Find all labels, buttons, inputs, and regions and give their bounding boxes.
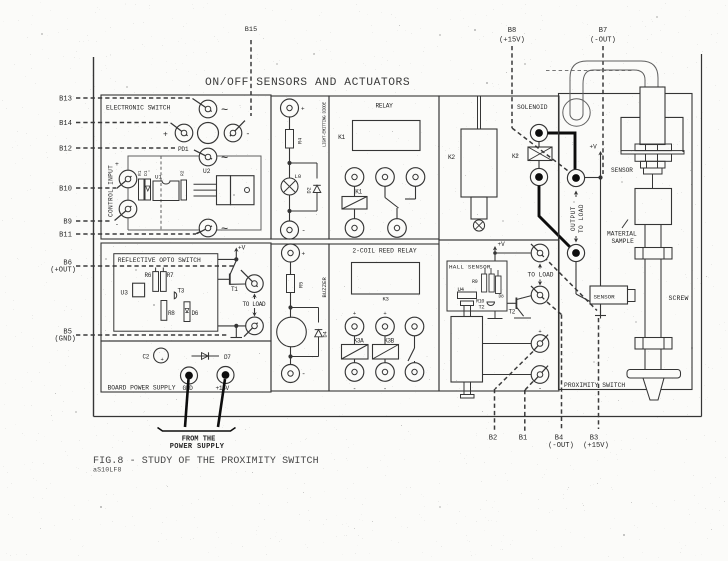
svg-text:D2: D2 (307, 187, 313, 193)
board outline right edge (701, 54, 703, 417)
svg-text:R9: R9 (472, 279, 478, 285)
wire K3A bottom (354, 359, 356, 363)
resistor R2 (181, 180, 187, 200)
magnet stem bottom (464, 382, 471, 395)
terminal reed switch top (405, 317, 424, 336)
wire B6 dashed (76, 265, 234, 267)
inner box reflective opto (114, 254, 218, 332)
wire relay coil bottom (354, 209, 356, 219)
resistor R9b (489, 274, 494, 292)
cable inner wall (583, 70, 645, 114)
wire relay coil top (354, 186, 356, 196)
wire K2 coil bottom (538, 161, 540, 169)
module box solenoid (439, 96, 559, 240)
svg-text:TO LOAD: TO LOAD (578, 204, 585, 233)
wire relay switch pole (384, 186, 386, 197)
svg-text:T2: T2 (509, 309, 516, 316)
svg-text:SENSOR: SENSOR (594, 294, 616, 301)
svg-text:R4: R4 (298, 138, 304, 144)
svg-text:D8: D8 (499, 294, 504, 300)
terminal relay NO (406, 168, 425, 187)
svg-text:+: + (161, 356, 164, 363)
svg-text:D1: D1 (143, 170, 149, 176)
wire LED 1 (289, 117, 291, 130)
svg-text:-: - (538, 385, 542, 392)
screw knob taper (643, 378, 664, 400)
inductive sensor box (590, 286, 628, 304)
svg-text:(-OUT): (-OUT) (548, 442, 574, 450)
resistor R1 (139, 179, 145, 200)
transistor T2 package (487, 302, 495, 306)
svg-text:T1: T1 (231, 286, 238, 293)
svg-text:K3: K3 (382, 296, 388, 303)
svg-text:BUZZER: BUZZER (321, 276, 328, 297)
svg-text:U2: U2 (203, 168, 211, 175)
terminal buzzer plus (282, 244, 300, 262)
ic U1 (153, 181, 179, 201)
wire +15V thick (218, 379, 225, 427)
sensor nut row 3 (641, 161, 666, 168)
screw collar 1 (635, 248, 672, 260)
wire LED 2 (289, 148, 291, 178)
svg-text:U1: U1 (155, 174, 162, 181)
wire B2 dashed (495, 352, 533, 390)
ground cross B3 (595, 315, 606, 317)
ic U3 (133, 283, 145, 297)
sensor stem (644, 168, 663, 174)
cable grommet donut (563, 99, 590, 126)
svg-text:(GND): (GND) (54, 336, 76, 344)
diode D6 (184, 302, 190, 322)
terminal hall plus (531, 335, 549, 353)
wire B12 dashed (76, 147, 175, 149)
terminal AC top (192, 99, 216, 118)
svg-text:OUTPUT: OUTPUT (570, 206, 577, 231)
wire K2 coil top (538, 142, 540, 147)
transistor T3 package (174, 292, 176, 299)
svg-text:R7: R7 (167, 272, 174, 279)
magnet socket (461, 301, 474, 306)
resistor R5 (287, 275, 295, 293)
stub D8 top (497, 270, 499, 276)
wire hall +V to load terminal (495, 252, 531, 254)
wire B4 dashed (547, 302, 562, 315)
module box board power supply (101, 341, 271, 392)
stub R9b top (490, 268, 492, 274)
resistor R9a (482, 274, 487, 292)
wire relay NO leg (415, 186, 417, 199)
svg-text:~: ~ (221, 223, 228, 237)
sensor nut row 2 (635, 154, 672, 161)
wire B10 dashed (76, 187, 116, 189)
plus V rail arrow (598, 151, 602, 155)
node buzzer top (288, 305, 292, 309)
wire B3 to sensor diagonal dashed (544, 257, 597, 311)
sensor nut row 1 (635, 144, 672, 151)
svg-text:C2: C2 (143, 354, 150, 361)
sensor shelf (621, 151, 684, 154)
terminal control input plus (117, 170, 137, 188)
wire K3A top (354, 336, 356, 345)
wire output to rail (585, 177, 601, 179)
magnet body (451, 317, 483, 383)
terminal opto collector (241, 270, 263, 292)
inner control box (128, 156, 261, 230)
U2 lead pin 1 (194, 183, 217, 185)
module box hall sensor (439, 240, 559, 391)
wire B8 dashed diagonal (512, 128, 568, 171)
node LED bottom (287, 209, 291, 213)
svg-text:TO LOAD: TO LOAD (243, 301, 267, 308)
wire B1 dashed (525, 382, 533, 391)
svg-text:B14: B14 (59, 120, 72, 128)
node opto ground (234, 324, 238, 328)
svg-text:ON/OFF SENSORS AND ACTUATORS: ON/OFF SENSORS AND ACTUATORS (205, 77, 410, 89)
svg-text:B1: B1 (519, 435, 528, 443)
svg-text:-: - (353, 386, 357, 393)
ground hall box (494, 311, 496, 319)
resistor R7 (161, 272, 167, 292)
svg-text:R6: R6 (145, 272, 152, 279)
reed coil K3B (373, 345, 399, 360)
svg-text:B12: B12 (59, 145, 72, 153)
solenoid coil K2 symbol (528, 147, 552, 161)
arrow to load opto (252, 294, 256, 298)
wire magnet minus (483, 374, 532, 376)
diode D1 (145, 179, 151, 200)
svg-text:+V: +V (498, 241, 506, 248)
brace from power supply (158, 428, 236, 432)
svg-text:B15: B15 (245, 26, 258, 34)
screw shaft (644, 225, 646, 372)
lamp L0 (281, 178, 298, 195)
svg-text:~: ~ (221, 152, 228, 166)
cable outer wall (570, 61, 658, 114)
solenoid lower guide (471, 197, 487, 219)
terminal K2 coil bottom (530, 168, 547, 185)
ground tick B5 (235, 326, 237, 338)
svg-text:+: + (163, 131, 168, 140)
terminal GND (181, 367, 198, 384)
svg-text:SAMPLE: SAMPLE (612, 238, 635, 245)
svg-text:-: - (115, 221, 119, 228)
svg-text:D4: D4 (323, 331, 329, 337)
svg-text:(+OUT): (+OUT) (50, 267, 76, 275)
wire buzzer branch top (291, 307, 319, 309)
terminal K3A top (345, 317, 364, 336)
wire box to ground node (218, 325, 246, 327)
svg-text:K2: K2 (448, 154, 455, 161)
terminal K3B bottom (376, 363, 395, 382)
svg-text:R5: R5 (299, 282, 305, 288)
svg-text:+V: +V (590, 144, 598, 151)
svg-text:PD1: PD1 (178, 146, 189, 153)
module box relay (329, 96, 439, 239)
terminal relay switch bottom (388, 219, 407, 238)
board outline bottom edge (94, 416, 702, 418)
svg-text:RELAY: RELAY (375, 103, 393, 110)
U2 lead pin 2 (194, 189, 217, 191)
wire B9 dashed (76, 220, 112, 222)
stub R9a top (484, 268, 486, 274)
node opto collector (234, 257, 238, 261)
svg-text:SOLENOID: SOLENOID (517, 104, 548, 111)
wire relay switch bottom (396, 208, 398, 219)
wire B11 stub (196, 228, 208, 234)
wire reed switch bottom (414, 361, 416, 363)
wire B7 dashed vertical (602, 46, 604, 174)
terminal K2 coil top (530, 124, 547, 141)
svg-text:B10: B10 (59, 185, 72, 193)
terminal AC bottom (197, 219, 217, 237)
wire sensor to sample (652, 174, 654, 189)
wire LED branch top (290, 162, 318, 164)
svg-text:+: + (115, 161, 119, 168)
svg-text:+: + (538, 328, 541, 335)
wire B3 dashed (598, 318, 600, 429)
svg-text:+: + (383, 310, 386, 317)
svg-text:-: - (383, 386, 387, 393)
terminal reed switch bottom (405, 363, 424, 382)
svg-text:R8: R8 (168, 310, 175, 317)
terminal K3B top (376, 317, 395, 336)
ic U4 (458, 292, 477, 299)
svg-text:aS10LF8: aS10LF8 (93, 467, 122, 474)
wire B11 dashed (76, 233, 196, 235)
svg-text:ELECTRONIC SWITCH: ELECTRONIC SWITCH (106, 105, 171, 112)
cable u-bend (570, 114, 583, 120)
dashed net inside control box (160, 156, 162, 230)
terminal relay coil top (345, 168, 364, 187)
svg-text:B7: B7 (599, 27, 608, 35)
terminal hall load bottom (531, 286, 549, 304)
wire K3B bottom (384, 359, 386, 363)
module box buzzer (271, 244, 329, 391)
terminal hall load top (531, 244, 549, 262)
terminal plus input (171, 123, 193, 142)
svg-text:FIG.8 - STUDY OF THE PROXIMITY: FIG.8 - STUDY OF THE PROXIMITY SWITCH (93, 456, 319, 467)
resistor R4 (286, 130, 294, 149)
wire B14 dashed (76, 122, 170, 124)
svg-text:+V: +V (238, 245, 246, 252)
terminal LED plus (281, 99, 299, 117)
svg-text:B8: B8 (508, 27, 517, 35)
module box electronic switch (101, 95, 271, 239)
terminal opto emitter-load (244, 317, 263, 336)
wire B15 dashed (250, 40, 252, 116)
svg-text:L0: L0 (295, 173, 302, 180)
screw knob flange (627, 370, 681, 379)
wire buzzer 2 (290, 293, 292, 318)
svg-text:(+15V): (+15V) (583, 442, 609, 450)
wire buzzer branch bottom (318, 337, 320, 357)
node hall +V (493, 251, 497, 255)
module box proximity switch (559, 94, 693, 390)
terminal +15V (217, 367, 234, 384)
svg-text:K1: K1 (338, 134, 345, 141)
buzzer BZ (277, 317, 307, 347)
reed relay K3 body (352, 263, 420, 295)
module box reed relay (329, 244, 439, 391)
svg-text:-: - (302, 371, 306, 379)
transistor T1 (229, 274, 231, 285)
terminal relay coil bottom (345, 219, 364, 238)
hall inner box (447, 261, 507, 311)
svg-text:R2: R2 (180, 170, 186, 176)
svg-text:-: - (302, 228, 306, 236)
svg-text:SCREW: SCREW (669, 295, 689, 302)
wire LED branch bottom (316, 193, 318, 212)
potentiometer knob (198, 123, 219, 144)
wire B5 dashed (76, 334, 229, 336)
relay coil K1 (342, 197, 367, 210)
sensor bracket (621, 117, 640, 152)
arrow output to load (574, 191, 578, 195)
wire buzzer 3 (290, 347, 292, 365)
wire buzzer 1 (290, 262, 292, 275)
svg-text:K2: K2 (512, 153, 519, 160)
svg-text:U3: U3 (121, 290, 129, 297)
terminal output top (567, 169, 584, 186)
relay switch blade (385, 198, 399, 209)
svg-text:(+15V): (+15V) (499, 37, 525, 45)
solenoid plunger rod (477, 97, 479, 130)
wire magnet plus (483, 343, 532, 345)
terminal buzzer minus (282, 365, 300, 383)
svg-text:TO LOAD: TO LOAD (528, 272, 554, 279)
svg-text:R1: R1 (137, 170, 143, 176)
magnet stem top (464, 306, 471, 317)
resistor R6 (153, 272, 159, 292)
diode D8 (496, 276, 502, 294)
transistor U2 package (217, 176, 231, 205)
svg-text:~: ~ (221, 104, 228, 118)
svg-text:D7: D7 (224, 354, 231, 361)
svg-text:K1: K1 (355, 189, 362, 196)
wire box to +V node (218, 258, 237, 260)
stub R7 top (162, 268, 164, 272)
stub R6 top (155, 268, 157, 272)
wire LED 3 (289, 195, 291, 221)
terminal relay common (376, 168, 395, 187)
ground T2 (514, 317, 531, 319)
wire reed switch pole (414, 336, 416, 348)
transistor T2 (515, 298, 517, 310)
U2 lead pin 3 (194, 195, 217, 197)
node output rail (598, 175, 602, 179)
terminal output bottom (567, 244, 584, 261)
module box light-emitting diode (271, 96, 329, 239)
svg-text:K3A: K3A (354, 338, 364, 345)
module box reflective opto switch (101, 243, 271, 341)
diode D7 (192, 355, 220, 357)
svg-text:REFLECTIVE OPTO SWITCH: REFLECTIVE OPTO SWITCH (118, 257, 201, 264)
plus V arrow hall (493, 246, 497, 250)
relay K1 body (353, 121, 421, 151)
svg-text:CONTROL INPUT: CONTROL INPUT (108, 165, 115, 217)
wire B8 dashed vertical (511, 46, 513, 128)
terminal K3A bottom (345, 363, 364, 382)
svg-text:BOARD POWER SUPPLY: BOARD POWER SUPPLY (108, 385, 176, 392)
svg-text:B11: B11 (59, 231, 72, 239)
svg-text:MATERIAL: MATERIAL (607, 231, 637, 238)
diode D2 (313, 185, 321, 192)
wire K2 to output top thick (548, 133, 575, 169)
svg-text:T3: T3 (178, 288, 185, 295)
wire K3B top (384, 336, 386, 345)
wire sensor box down (600, 304, 602, 314)
svg-text:-: - (246, 130, 251, 139)
svg-text:(-OUT): (-OUT) (590, 37, 616, 45)
diode D4 (315, 330, 323, 337)
leader material sample (622, 220, 628, 229)
terminal LED minus (281, 221, 299, 239)
plus V arrow opto (234, 248, 238, 252)
reed switch blade (408, 348, 415, 361)
svg-text:SENSOR: SENSOR (611, 167, 633, 174)
svg-text:B13: B13 (59, 95, 72, 103)
svg-text:PROXIMITY SWITCH: PROXIMITY SWITCH (564, 382, 625, 389)
board outline left edge (93, 57, 95, 417)
svg-text:D6: D6 (192, 310, 199, 317)
resistor R8 (161, 301, 167, 321)
arrow hall to load (538, 264, 542, 268)
svg-text:LIGHT-EMITTING DIODE: LIGHT-EMITTING DIODE (322, 102, 327, 147)
sensor cylinder (640, 87, 665, 145)
wire GND thick (185, 379, 189, 427)
svg-text:+: + (353, 310, 356, 317)
terminal PD1 (194, 148, 217, 166)
svg-text:B9: B9 (63, 218, 72, 226)
terminal minus input (224, 121, 245, 142)
wire output bottom down (575, 262, 577, 294)
node buzzer bottom (288, 354, 292, 358)
reed coil K3A (342, 345, 369, 360)
svg-text:T2: T2 (479, 305, 485, 311)
capacitor C2 (154, 348, 169, 363)
svg-text:2-COIL REED RELAY: 2-COIL REED RELAY (352, 248, 416, 255)
svg-text:POWER SUPPLY: POWER SUPPLY (170, 443, 225, 451)
svg-text:+: + (301, 106, 305, 113)
node LED top (287, 161, 291, 165)
material sample block (635, 189, 672, 225)
svg-text:K3B: K3B (384, 338, 394, 345)
wire B13 dashed (76, 97, 192, 99)
terminal control input minus (115, 200, 137, 220)
dashed guide top right (546, 70, 632, 72)
magnet flange bottom (461, 395, 475, 399)
svg-text:B2: B2 (489, 435, 498, 443)
terminal hall minus (531, 366, 549, 384)
svg-text:+: + (302, 251, 306, 258)
solenoid tip lamp (473, 220, 484, 231)
wire K2 to output bottom thick (539, 186, 570, 247)
screw collar 2 (635, 338, 672, 350)
solenoid K2 body (461, 129, 497, 197)
